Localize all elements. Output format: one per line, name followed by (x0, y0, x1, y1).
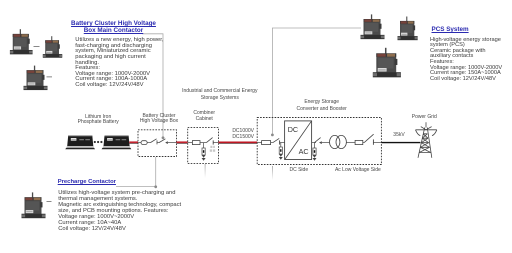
ellipsis dots between batteries (94, 141, 103, 143)
wire battery cluster box to combiner (red) (177, 141, 188, 143)
energy storage converter and booster box (dashed) (257, 118, 381, 165)
wire inside converter (257, 142, 261, 144)
label: DC text in converter (288, 125, 298, 134)
PCS contactor K4 contact (279, 140, 281, 144)
label: Combiner Cabinet (184, 110, 224, 123)
surge arrester branch at converter output (313, 143, 317, 161)
wire converter to power grid (35kV line) (381, 142, 420, 144)
combiner switch K3 blade (206, 138, 212, 143)
output arrow at DC/AC (319, 141, 322, 144)
contactor photo P5 top-right (361, 14, 385, 39)
battery cluster high voltage box (dashed) (138, 130, 177, 157)
faint annotation in combiner (210, 146, 215, 152)
contactor photo P7 bottom of top-right group (373, 48, 401, 78)
title: PCS System (432, 26, 469, 33)
leader from PCS photo to converter contactor (272, 28, 361, 134)
wire (363, 142, 364, 144)
wire inside combiner (188, 142, 193, 144)
label: Battery Cluster High Voltage Box (137, 114, 181, 126)
main contactor K2 blade (159, 139, 165, 143)
fuse F1 (stadium) (141, 141, 147, 145)
fuse F3 (262, 141, 271, 145)
wire out of DC/AC (312, 142, 316, 144)
breaker box (355, 140, 363, 144)
contactor photo P3 lower in top-left group (24, 66, 48, 90)
wire combiner to converter (red) (219, 141, 258, 143)
label: AC text in converter (299, 147, 309, 156)
pointer dash for P4 (47, 201, 52, 203)
label: DC1000V DC1500V (230, 128, 254, 141)
grid switch K6 blade (364, 134, 373, 142)
surge arrester branch in combiner (202, 143, 206, 161)
wire (147, 142, 150, 144)
description text for precharge contactor (58, 191, 181, 233)
label: Energy Storage Converter and Booster (292, 99, 352, 112)
contactor photo P2 top-left (43, 36, 62, 58)
contactor photo P4 bottom-left (22, 192, 46, 218)
leader from title to battery-cluster contactor (142, 34, 163, 137)
wire to transformer (322, 142, 330, 144)
label: Power Grid (404, 114, 444, 120)
pointer dash for P3 (47, 76, 53, 78)
wire to DC/AC (280, 142, 285, 144)
AC switch K5 blade (315, 138, 321, 143)
switch K1 blade (150, 139, 156, 143)
wire to box edge (168, 142, 177, 144)
wire inside battery cluster box (138, 142, 141, 144)
description text for PCS system (430, 38, 502, 83)
wire to box edge (213, 142, 218, 144)
label: DC Side (284, 167, 314, 173)
description text for battery cluster contactor (75, 38, 163, 88)
battery module B2 (102, 136, 132, 150)
label: Industrial and Commercial Energy Storage Systems (170, 88, 270, 102)
leader dot at converter contactor (271, 134, 274, 137)
battery module B1 (65, 136, 95, 150)
label: Lithium Iron Phosphate Battery (63, 115, 133, 127)
wire transformer to breaker (346, 142, 355, 144)
leader dot at battery-cluster contactor (162, 136, 165, 139)
wire battery to battery-cluster box (red DC bus) (129, 141, 138, 143)
grid switch K6 contact tick (372, 139, 374, 144)
label: Ac Low Voltage Side (328, 167, 388, 173)
wire (271, 142, 273, 144)
leader from precharge title to battery cluster box (116, 157, 156, 187)
fuse F2 (192, 141, 200, 145)
pointer dash for P1 (34, 46, 40, 48)
main contactor K2 contact arrow (165, 141, 168, 144)
wire (157, 142, 159, 144)
DC/AC diagonal (285, 121, 311, 159)
PCS contactor K4 blade (273, 138, 279, 142)
combiner cabinet box (dashed) (188, 128, 219, 164)
label: 35kV (393, 132, 404, 138)
combiner switch K3 contact tick (212, 140, 214, 144)
surge arrester branch at converter input (279, 143, 283, 160)
contactor photo P6 top-right (398, 17, 418, 41)
fading line below converter box (271, 166, 274, 180)
wire to node (200, 142, 206, 144)
switch K1 contact tick (156, 140, 158, 144)
DC/AC converter U1 box (285, 121, 312, 160)
wire to box edge (373, 142, 381, 144)
transformer T1 (330, 135, 347, 148)
title: Battery Cluster High Voltage Box Main Contactor (64, 21, 163, 34)
title: Precharge Contactor (58, 179, 116, 185)
fading line below combiner cabinet (204, 164, 207, 178)
power grid transmission tower (416, 122, 437, 158)
contactor photo P1 top-left (10, 29, 33, 54)
leader dot at precharge corner (154, 185, 157, 188)
